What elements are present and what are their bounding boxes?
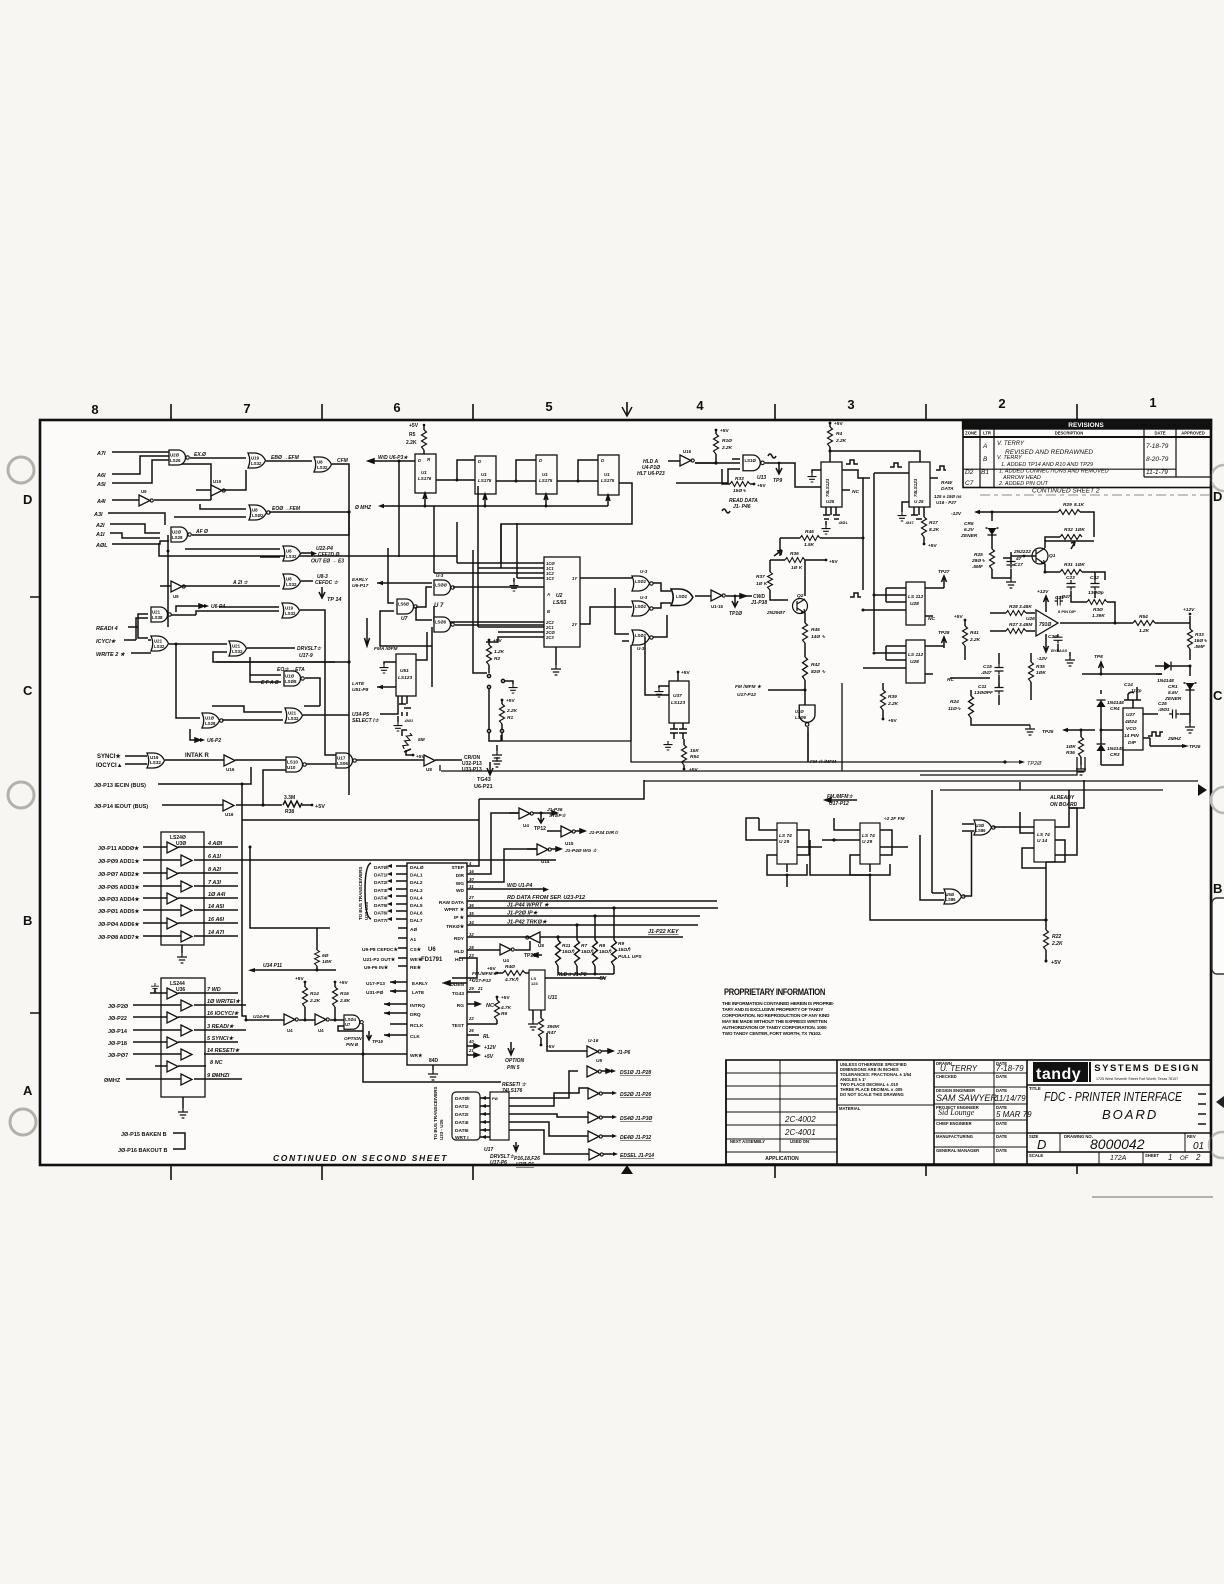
resistor R38 3.3M bbox=[283, 801, 302, 807]
svg-text:U21: U21 bbox=[154, 639, 163, 644]
wire RDY long bbox=[467, 936, 683, 938]
svg-text:DESCRIPTION: DESCRIPTION bbox=[1055, 431, 1084, 436]
svg-text:R35: R35 bbox=[1036, 664, 1045, 670]
svg-text:C17: C17 bbox=[1014, 562, 1023, 568]
svg-text:DAL7: DAL7 bbox=[410, 918, 423, 924]
svg-text:1. ADDED CONNECTIONS AND RE: 1. ADDED CONNECTIONS AND REMOVED bbox=[999, 469, 1109, 475]
fold arrow top center bbox=[626, 402, 628, 414]
tolerances text bbox=[840, 1062, 912, 1097]
svg-text:3: 3 bbox=[847, 397, 854, 412]
wire bbox=[131, 640, 151, 653]
svg-text:14 RESETI★: 14 RESETI★ bbox=[207, 1047, 241, 1054]
svg-text:+5V: +5V bbox=[888, 718, 897, 724]
svg-text:LS28: LS28 bbox=[205, 721, 216, 726]
svg-text:1N4148: 1N4148 bbox=[1157, 678, 1174, 684]
svg-text:.Ø47: .Ø47 bbox=[981, 670, 992, 676]
IC U17 transceiver bbox=[490, 1092, 509, 1140]
svg-text:STEP: STEP bbox=[451, 865, 464, 871]
svg-text:PULL UPS: PULL UPS bbox=[618, 954, 642, 960]
resistor R36 10K with arrow bbox=[785, 558, 805, 563]
wire DIR bbox=[467, 822, 491, 874]
svg-text:U33-U35: U33-U35 bbox=[364, 901, 369, 920]
svg-text:TO BUS TRANSCEIVERS: TO BUS TRANSCEIVERS bbox=[433, 1087, 438, 1140]
resistor R35 10K bbox=[1030, 653, 1032, 662]
input wires and labels bbox=[98, 845, 140, 941]
svg-text:123: 123 bbox=[531, 981, 538, 986]
svg-text:LS123: LS123 bbox=[671, 700, 685, 706]
svg-text:OUT EØ → E3: OUT EØ → E3 bbox=[311, 559, 344, 565]
wires U28b bbox=[863, 646, 944, 674]
node 2MHZ out bbox=[1143, 737, 1150, 739]
wire Q3->D4 bbox=[557, 480, 598, 482]
ground below bbox=[825, 521, 827, 525]
svg-text:RG: RG bbox=[457, 1003, 464, 1009]
xor U3b LS02 bbox=[632, 601, 653, 616]
wire Q4 out bbox=[501, 483, 632, 563]
svg-text:TG43: TG43 bbox=[477, 777, 491, 783]
svg-text:INTAK R: INTAK R bbox=[185, 753, 210, 759]
svg-text:U9-P6 IN★: U9-P6 IN★ bbox=[364, 965, 389, 971]
nand U10 LS10 bbox=[286, 757, 306, 772]
wire R1 bottom to trunk bbox=[487, 729, 490, 732]
svg-text:DALØ: DALØ bbox=[410, 865, 424, 871]
wire AF to right bbox=[192, 512, 349, 535]
wire RL bbox=[467, 1034, 479, 1036]
svg-text:R37: R37 bbox=[756, 574, 765, 580]
svg-text:EARLY: EARLY bbox=[412, 981, 429, 987]
svg-text:CR1: CR1 bbox=[1168, 684, 1178, 690]
wire bbox=[124, 618, 148, 640]
svg-text:2.2K: 2.2K bbox=[506, 708, 518, 714]
svg-text:LS 74: LS 74 bbox=[862, 833, 875, 839]
svg-text:JØ-P14 IEOUT (BUS): JØ-P14 IEOUT (BUS) bbox=[94, 804, 148, 810]
svg-text:EOØ →FEM: EOØ →FEM bbox=[272, 506, 301, 512]
U25b out RAW DATA bbox=[930, 477, 938, 479]
svg-text:U13: U13 bbox=[757, 475, 766, 481]
svg-text:1Ø K: 1Ø K bbox=[791, 565, 803, 571]
svg-text:4.7K: 4.7K bbox=[500, 1005, 512, 1011]
svg-text:LSØ6: LSØ6 bbox=[795, 715, 807, 720]
svg-text:FM /MFM ★: FM /MFM ★ bbox=[735, 684, 762, 690]
svg-text:DATØI: DATØI bbox=[455, 1096, 470, 1102]
svg-text:1.5K: 1.5K bbox=[804, 542, 815, 548]
inverter U4b bbox=[315, 1014, 329, 1033]
svg-text:EX.Ø: EX.Ø bbox=[194, 452, 207, 458]
svg-text:DIP: DIP bbox=[1128, 740, 1137, 746]
svg-text:U 25: U 25 bbox=[914, 499, 924, 504]
ground U36 bottom bbox=[182, 1097, 184, 1108]
svg-text:DATA: DATA bbox=[941, 486, 954, 492]
wire IP long bbox=[467, 915, 700, 917]
wire bbox=[112, 456, 169, 474]
svg-text:U 29: U 29 bbox=[862, 839, 872, 845]
wire bbox=[266, 460, 312, 462]
svg-text:WRITE 2 ★: WRITE 2 ★ bbox=[96, 651, 126, 658]
svg-text:+5V: +5V bbox=[339, 980, 348, 986]
tolerance / material bbox=[837, 1104, 934, 1106]
svg-text:2.2K: 2.2K bbox=[1051, 941, 1063, 947]
svg-text:U1-15: U1-15 bbox=[711, 604, 724, 609]
svg-text:U31-PØ: U31-PØ bbox=[366, 990, 384, 996]
svg-text:U8: U8 bbox=[426, 767, 432, 772]
diode CR3 bbox=[1097, 744, 1106, 751]
svg-text:6Ø: 6Ø bbox=[322, 953, 329, 959]
jumper dots bbox=[487, 674, 490, 677]
svg-text:U-16: U-16 bbox=[588, 1038, 599, 1044]
svg-text:R14: R14 bbox=[310, 991, 319, 997]
svg-text:7 A3I: 7 A3I bbox=[208, 880, 221, 886]
svg-text:JØ-P13 IECIN (BUS): JØ-P13 IECIN (BUS) bbox=[94, 783, 146, 789]
output buffer row: inverter U16 J1-P6 bbox=[587, 1046, 601, 1057]
svg-text:U21: U21 bbox=[152, 610, 161, 615]
left stub wires bbox=[384, 928, 407, 1035]
svg-text:U28: U28 bbox=[910, 601, 919, 607]
svg-text:+12V: +12V bbox=[484, 1045, 496, 1051]
resistor R13 4.7K with +5V bbox=[496, 996, 499, 999]
svg-text:V. TERRY: V. TERRY bbox=[997, 455, 1022, 461]
svg-text:TARY AND IS EXCLUSIVE PROPERTY: TARY AND IS EXCLUSIVE PROPERTY OF TANDY bbox=[722, 1007, 824, 1012]
svg-text:+5V: +5V bbox=[1051, 960, 1061, 966]
svg-text:5M: 5M bbox=[418, 737, 426, 743]
svg-text:TP25: TP25 bbox=[1042, 729, 1054, 735]
svg-text:R28: R28 bbox=[1009, 604, 1018, 610]
svg-text:4Ø24: 4Ø24 bbox=[1124, 719, 1137, 725]
-12V arrow bbox=[1044, 634, 1049, 652]
svg-text:CR3: CR3 bbox=[1110, 752, 1120, 758]
svg-text:3.48M: 3.48M bbox=[1019, 622, 1033, 628]
resistor R54 1.2K bbox=[1133, 621, 1155, 626]
svg-text:+5V: +5V bbox=[681, 670, 690, 676]
svg-text:16Ø∿: 16Ø∿ bbox=[1194, 638, 1208, 644]
svg-text:DIR: DIR bbox=[456, 873, 465, 879]
svg-text:VCO: VCO bbox=[1126, 726, 1137, 732]
wire from FF chain down bbox=[500, 524, 502, 568]
NC stub bbox=[842, 489, 850, 491]
svg-text:CONTINUED SHEET 2: CONTINUED SHEET 2 bbox=[1032, 488, 1100, 495]
svg-text:C21: C21 bbox=[1055, 595, 1064, 601]
pulse glyph bbox=[850, 593, 861, 597]
resistor R1 2.2K bbox=[501, 699, 504, 702]
svg-text:U 14: U 14 bbox=[1037, 838, 1047, 844]
wire LS08 in bbox=[250, 657, 281, 682]
input labels U36 bbox=[104, 1004, 129, 1084]
resistor R24 110 bbox=[970, 690, 972, 696]
svg-text:U-3: U-3 bbox=[436, 573, 444, 578]
zener CR5 bbox=[991, 511, 994, 514]
svg-text:DAL1: DAL1 bbox=[410, 873, 423, 879]
node TG43 bbox=[487, 762, 493, 775]
node CFF2D labels bbox=[301, 552, 311, 554]
svg-text:A4I: A4I bbox=[96, 499, 106, 505]
svg-text:NC: NC bbox=[852, 489, 859, 495]
wire SELECT to U51 bbox=[380, 696, 398, 714]
node TP25 bbox=[1062, 728, 1068, 732]
svg-text:A1: A1 bbox=[410, 937, 416, 943]
svg-text:JØ-PØ8 ADD7★: JØ-PØ8 ADD7★ bbox=[98, 934, 140, 941]
svg-text:JØ-P18: JØ-P18 bbox=[108, 1041, 127, 1047]
svg-text:JØ-PØ1 ADD5★: JØ-PØ1 ADD5★ bbox=[98, 908, 140, 915]
svg-text:U8: U8 bbox=[317, 460, 323, 465]
wire option arrow bbox=[514, 1142, 519, 1151]
nand U20 LS28 (4-input) bbox=[171, 527, 191, 542]
svg-text:29: 29 bbox=[468, 986, 474, 991]
or U21 LS32g bbox=[229, 641, 247, 656]
svg-text:74LS123: 74LS123 bbox=[825, 478, 830, 497]
svg-text:R42: R42 bbox=[811, 662, 820, 668]
zone numbers top bbox=[91, 395, 1156, 417]
svg-text:D: D bbox=[1037, 1137, 1046, 1152]
svg-text:U1: U1 bbox=[542, 472, 548, 477]
wire WPRT long bbox=[467, 907, 718, 909]
faint line bottom right bbox=[1092, 1196, 1213, 1198]
svg-text:+5V: +5V bbox=[315, 804, 325, 810]
svg-text:RL: RL bbox=[483, 1034, 490, 1040]
buffers U30 a-h bbox=[167, 842, 192, 942]
pulse glyph bbox=[768, 454, 776, 458]
svg-text:EDSEL J1-P14: EDSEL J1-P14 bbox=[620, 1153, 654, 1159]
border frame bbox=[40, 420, 1211, 1165]
node EARLY U6-P17 bbox=[377, 582, 432, 584]
svg-text:LS28: LS28 bbox=[172, 535, 183, 540]
svg-text:NEXT ASSEMBLY: NEXT ASSEMBLY bbox=[730, 1139, 765, 1144]
svg-text:+5V: +5V bbox=[829, 559, 838, 565]
wires in U36 bbox=[126, 993, 181, 1079]
svg-text:J1-P38: J1-P38 bbox=[751, 600, 767, 606]
resistor R2 1.2K bbox=[487, 645, 492, 665]
svg-text:LS32: LS32 bbox=[154, 644, 165, 649]
svg-text:R8: R8 bbox=[599, 943, 605, 949]
svg-text:C25: C25 bbox=[1158, 701, 1167, 707]
small header labels bbox=[730, 1061, 1196, 1158]
wire STEP up-trunk bbox=[467, 820, 479, 866]
svg-text:LS26: LS26 bbox=[170, 458, 181, 463]
svg-text:RCLK: RCLK bbox=[410, 1023, 424, 1029]
svg-text:Sid Lounge: Sid Lounge bbox=[938, 1108, 975, 1117]
svg-text:R31: R31 bbox=[1064, 562, 1073, 568]
svg-text:2.2K: 2.2K bbox=[835, 438, 847, 444]
wires U7 cluster bbox=[380, 548, 432, 646]
svg-text:14 PIN: 14 PIN bbox=[1124, 733, 1139, 739]
svg-text:U33 - U35: U33 - U35 bbox=[439, 1119, 444, 1140]
wires xor3 bbox=[615, 588, 667, 641]
svg-text:+5V: +5V bbox=[416, 754, 425, 760]
svg-text:U3Ø: U3Ø bbox=[176, 841, 186, 847]
svg-text:LS32: LS32 bbox=[288, 716, 299, 721]
svg-text:SAM SAWYER: SAM SAWYER bbox=[936, 1093, 997, 1103]
wire bbox=[108, 513, 165, 525]
IC U28b LS112 bbox=[906, 640, 925, 683]
svg-text:HLT U6-P23: HLT U6-P23 bbox=[637, 471, 665, 477]
svg-text:FMA /ØFM: FMA /ØFM bbox=[374, 646, 399, 652]
svg-text:DS1Ø J1-P28: DS1Ø J1-P28 bbox=[620, 1070, 651, 1076]
inverter U8 bbox=[424, 755, 435, 772]
svg-text:.ØØ1: .ØØ1 bbox=[1158, 707, 1170, 713]
svg-text:DAT7I: DAT7I bbox=[374, 918, 388, 924]
svg-text:MANUFACTURING: MANUFACTURING bbox=[936, 1134, 973, 1139]
svg-text:TP28: TP28 bbox=[938, 630, 950, 636]
svg-text:J1-P44 WPRT ★: J1-P44 WPRT ★ bbox=[507, 902, 550, 909]
svg-text:ON BOARD: ON BOARD bbox=[1050, 802, 1078, 808]
svg-text:U21: U21 bbox=[232, 644, 241, 649]
wires xor outs bbox=[653, 583, 671, 608]
wire U51 top right bbox=[416, 632, 427, 660]
wire bbox=[112, 499, 139, 501]
wire TRK0 long bbox=[467, 924, 698, 926]
svg-text:U1: U1 bbox=[604, 472, 610, 477]
svg-text:R36: R36 bbox=[790, 551, 799, 557]
svg-text:U26: U26 bbox=[1026, 616, 1035, 622]
svg-text:IOCYCI▲: IOCYCI▲ bbox=[96, 763, 123, 769]
buffer DS20 bbox=[588, 1088, 602, 1099]
svg-text:R4Ø: R4Ø bbox=[505, 964, 515, 970]
wire with junction bbox=[236, 804, 282, 806]
node U6-P2 bbox=[190, 729, 200, 742]
sheet interior bbox=[41, 421, 1210, 1164]
svg-text:4: 4 bbox=[696, 398, 704, 413]
svg-text:2.8K: 2.8K bbox=[339, 998, 351, 1004]
resistor R29 8.1K bbox=[1058, 510, 1080, 515]
svg-text:DAL3: DAL3 bbox=[410, 888, 423, 894]
IC U27 4024 VCO bbox=[1123, 708, 1143, 750]
svg-text:NC: NC bbox=[928, 616, 935, 622]
IC U51 LS123 bbox=[396, 654, 416, 696]
svg-text:DAT6I: DAT6I bbox=[455, 1128, 469, 1134]
svg-text:+5V: +5V bbox=[493, 638, 502, 644]
ground below U25b bbox=[902, 502, 909, 512]
svg-text:U37: U37 bbox=[673, 693, 682, 699]
wire HLD bbox=[467, 949, 500, 951]
resistor R7 bbox=[575, 940, 580, 966]
svg-text:J1- P46: J1- P46 bbox=[733, 504, 751, 510]
svg-text:R36: R36 bbox=[1066, 750, 1075, 756]
svg-text:7 WD: 7 WD bbox=[207, 987, 221, 993]
svg-text:B: B bbox=[547, 609, 550, 614]
svg-text:13ØØPF: 13ØØPF bbox=[974, 690, 994, 696]
svg-text:ICYCI★: ICYCI★ bbox=[96, 638, 117, 645]
svg-text:U6-P21: U6-P21 bbox=[474, 784, 493, 790]
zener CR1 bbox=[1189, 666, 1191, 676]
svg-text:U1Ø: U1Ø bbox=[205, 716, 215, 721]
svg-text:2C3: 2C3 bbox=[545, 635, 554, 640]
cap C15 .047 bbox=[995, 664, 1004, 675]
svg-text:GENERAL MANAGER: GENERAL MANAGER bbox=[936, 1148, 979, 1153]
op-amp U26 7910 bbox=[1036, 610, 1058, 636]
and U7 LS08 bbox=[434, 617, 454, 632]
svg-text:LS 112: LS 112 bbox=[908, 594, 923, 600]
wire LS08 out bbox=[305, 678, 320, 706]
output labels U36 bbox=[207, 987, 241, 1079]
svg-text:1Ø WRITEI★: 1Ø WRITEI★ bbox=[207, 998, 241, 1005]
svg-text:APPLICATION: APPLICATION bbox=[765, 1156, 799, 1162]
wire bbox=[112, 451, 169, 453]
ground U31 bbox=[532, 1010, 534, 1020]
svg-text:2.2K: 2.2K bbox=[309, 998, 321, 1004]
ground left U51 bbox=[384, 662, 396, 664]
wire LS32e out down to U17 gate bbox=[300, 610, 336, 755]
resistor R8 bbox=[593, 940, 598, 966]
DAT arrows left of U6 bbox=[396, 866, 407, 919]
svg-text:.5MF: .5MF bbox=[1194, 644, 1206, 650]
wire x399 down bbox=[398, 461, 400, 557]
resistor R22 2.2K bbox=[1045, 868, 1047, 930]
svg-text:5 SYNCI★: 5 SYNCI★ bbox=[207, 1035, 234, 1042]
svg-text:DE4Ø J1-P32: DE4Ø J1-P32 bbox=[620, 1135, 651, 1141]
svg-text:LS10: LS10 bbox=[287, 760, 298, 765]
svg-text:B: B bbox=[23, 913, 32, 928]
svg-text:+5V: +5V bbox=[487, 966, 496, 972]
IC U25b 74LS123 bbox=[909, 462, 930, 507]
cap C20 bbox=[1054, 634, 1063, 643]
svg-text:3.48K: 3.48K bbox=[1019, 604, 1032, 610]
wire Q2 collector up bbox=[804, 560, 806, 596]
svg-text:CHIEF ENGINEER: CHIEF ENGINEER bbox=[936, 1121, 972, 1126]
resistor R31 10K bbox=[1060, 570, 1082, 575]
svg-text:tandy: tandy bbox=[1036, 1066, 1081, 1083]
svg-text:JØ-PØ7: JØ-PØ7 bbox=[108, 1053, 128, 1059]
svg-text:8000042: 8000042 bbox=[1090, 1136, 1145, 1152]
svg-text:SYSTEMS DESIGN: SYSTEMS DESIGN bbox=[1094, 1063, 1199, 1074]
svg-text:6: 6 bbox=[393, 400, 400, 415]
flip-flop U29a LS74 bbox=[777, 823, 797, 864]
svg-text:14 A7I: 14 A7I bbox=[208, 930, 224, 936]
svg-text:V. TERRY: V. TERRY bbox=[997, 441, 1025, 447]
svg-text:4.7Kℏ: 4.7Kℏ bbox=[504, 977, 519, 983]
wire trunk y762-TP20 bbox=[631, 741, 1005, 762]
zone letters right bbox=[1213, 489, 1223, 896]
or U21 LS32h bbox=[285, 708, 303, 723]
caps below U51 bbox=[399, 696, 411, 716]
IC U6 FD1791 bbox=[407, 863, 467, 1065]
svg-text:5 MAR 79: 5 MAR 79 bbox=[996, 1110, 1032, 1119]
svg-text:15Ø∿: 15Ø∿ bbox=[733, 488, 747, 494]
svg-text:TO BUS TRANSCEIVERS: TO BUS TRANSCEIVERS bbox=[358, 867, 363, 920]
svg-text:+5V: +5V bbox=[757, 483, 766, 489]
svg-text:8-20-79: 8-20-79 bbox=[1146, 456, 1169, 463]
+12V arrow bbox=[1044, 596, 1049, 612]
svg-text:R4: R4 bbox=[836, 431, 842, 437]
svg-text:2MHZ: 2MHZ bbox=[1167, 736, 1182, 742]
node W/D U6-P3 bbox=[368, 459, 415, 463]
svg-text:PIN 5: PIN 5 bbox=[507, 1065, 520, 1071]
svg-text:DATØI: DATØI bbox=[374, 865, 389, 871]
IC U28a LS112 bbox=[906, 582, 925, 625]
svg-text:LS 112: LS 112 bbox=[908, 652, 923, 658]
node RG NC bbox=[467, 1002, 480, 1006]
svg-text:+5V: +5V bbox=[928, 543, 937, 549]
svg-text:J1-P42 TRKØ★: J1-P42 TRKØ★ bbox=[507, 919, 548, 926]
svg-text:E F A Ø: E F A Ø bbox=[261, 680, 280, 686]
svg-text:C: C bbox=[1213, 688, 1223, 703]
svg-text:U16: U16 bbox=[225, 812, 234, 817]
svg-text:HLD: HLD bbox=[454, 949, 464, 955]
svg-text:+12V: +12V bbox=[1183, 607, 1195, 613]
svg-text:U16: U16 bbox=[683, 449, 692, 454]
svg-text:J1-P34 DIR☆: J1-P34 DIR☆ bbox=[589, 830, 619, 836]
svg-text:DATE: DATE bbox=[996, 1088, 1007, 1093]
wire bus y557 bbox=[159, 543, 457, 556]
nand U13 LS10 bbox=[743, 455, 764, 471]
application section bbox=[726, 1060, 1027, 1164]
IC U31 LS123 bbox=[529, 970, 545, 1010]
inverter U8 on RDY (facing left) bbox=[526, 932, 540, 943]
svg-text:82Ø ∿: 82Ø ∿ bbox=[811, 669, 826, 675]
svg-text:A5I: A5I bbox=[96, 482, 106, 488]
wire in from loop bbox=[212, 706, 320, 712]
svg-text:WRT I: WRT I bbox=[455, 1135, 469, 1141]
svg-text:U1: U1 bbox=[421, 470, 427, 475]
svg-text:B: B bbox=[983, 456, 988, 463]
svg-text:TG43: TG43 bbox=[452, 991, 464, 997]
